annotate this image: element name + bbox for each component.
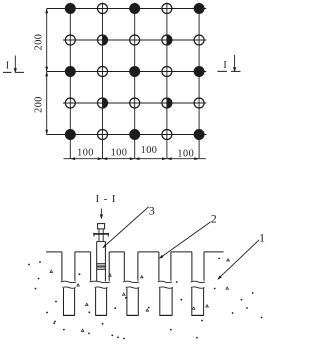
press machine neck left [98, 229, 100, 242]
open pile circle r4c5 [194, 98, 204, 108]
open pile circle r4c3 [130, 98, 140, 108]
wire - plan grid vertical col 3 [134, 3, 136, 159]
open pile circle r5c2 [98, 130, 108, 140]
pile head top edge [97, 241, 106, 243]
trench wall right unit1 [74, 252, 76, 281]
svg-text:1: 1 [259, 231, 265, 245]
leader line 2 [160, 222, 211, 258]
press direction arrowhead [100, 214, 103, 219]
break line lower pile top unit1 [63, 287, 76, 288]
open pile circle r3c2 [98, 67, 108, 77]
leader line 3 [103, 207, 149, 248]
trench wall left unit4 [158, 252, 160, 281]
trench wall left unit1 [61, 252, 63, 281]
ground surface segment 2 [75, 251, 91, 253]
buried pile wall right unit5 [203, 288, 205, 315]
wire - plan grid horizontal row 2 [63, 39, 206, 41]
break line lower pile top unit3 [126, 287, 139, 288]
trench wall left unit3 [123, 252, 125, 281]
dimension arrow left seg4 [167, 157, 172, 160]
half-filled pile circle r4c4 [162, 98, 172, 108]
section marker arrow line left [14, 56, 16, 70]
svg-text:100: 100 [141, 145, 158, 156]
section marker arrow line right [234, 55, 236, 68]
buried pile bottom unit1 [63, 314, 75, 316]
buried pile wall left unit5 [191, 288, 193, 315]
wire - plan grid horizontal row 1 [47, 8, 207, 10]
press machine crossbar tick left [93, 233, 95, 237]
section cut trace dash left [3, 71, 24, 73]
svg-text:I - I: I - I [96, 194, 117, 205]
dimension arrow left seg2 [103, 157, 108, 160]
break line lower pile top unit4 [159, 287, 173, 288]
open pile circle r2c5 [194, 35, 204, 45]
press direction arrow line [100, 209, 102, 216]
trench wall right unit3 [137, 252, 139, 281]
trench wall left unit2 [90, 252, 92, 281]
buried pile bottom unit5 [192, 314, 204, 316]
filled pile circle r3c1 [65, 66, 76, 77]
buried pile wall right unit3 [137, 288, 139, 315]
dimension arrow right seg1 [98, 157, 103, 160]
buried pile bottom unit3 [127, 314, 139, 316]
break line upper unit5 [191, 281, 206, 282]
svg-text:100: 100 [111, 148, 128, 159]
filled pile circle r5c5 [194, 129, 205, 140]
break line upper unit4 [158, 281, 172, 282]
section marker arrowhead right [233, 67, 236, 72]
ground surface segment 5 [171, 251, 192, 253]
half-filled pile circle r4c2 [98, 98, 108, 108]
dimension arrow down at row3 [45, 67, 48, 72]
wire - plan grid horizontal row 4 [63, 102, 206, 104]
press machine neck right [102, 229, 104, 242]
buried pile wall right unit4 [171, 288, 173, 315]
svg-text:I: I [6, 60, 9, 71]
press machine crossbar tick right [107, 233, 109, 237]
section cut trace dash right [218, 70, 242, 72]
open pile circle r2c1 [65, 35, 75, 45]
svg-text:100: 100 [77, 147, 94, 158]
svg-text:3: 3 [149, 204, 155, 218]
buried pile wall left unit4 [159, 288, 161, 315]
dimension arrow right seg4 [194, 157, 199, 160]
open pile circle r2c3 [130, 35, 140, 45]
break line upper unit2 [89, 281, 110, 282]
half-filled pile circle r2c4 [162, 35, 172, 45]
svg-text:200: 200 [33, 34, 44, 51]
ground surface segment 1 [46, 251, 62, 253]
buried pile wall right unit2 [106, 288, 108, 315]
filled pile circle r3c3 [129, 66, 140, 77]
ground surface segment 4 [138, 251, 159, 253]
buried pile bottom unit2 [95, 314, 107, 316]
dimension arrow left seg1 [70, 157, 75, 160]
leader arrowhead 2 [159, 255, 164, 259]
buried pile wall right unit1 [74, 288, 76, 315]
svg-text:2: 2 [211, 212, 217, 226]
leader arrowhead 3 [102, 244, 106, 248]
filled pile circle r5c1 [65, 129, 76, 140]
pile head wall left [96, 242, 98, 282]
wire - plan grid vertical col 5 [198, 3, 200, 159]
trench wall left unit5 [191, 252, 193, 281]
svg-text:200: 200 [33, 96, 44, 113]
break line upper unit3 [123, 281, 139, 282]
svg-text:I: I [223, 60, 226, 71]
open pile circle r3c4 [162, 67, 172, 77]
wire - plan grid horizontal row 5 [47, 134, 207, 136]
wire - plan grid vertical col 4 [166, 3, 168, 159]
ground surface segment 3 [109, 251, 124, 253]
dimension arrow left seg3 [135, 157, 140, 160]
dimension arrow up at row1 [45, 9, 48, 14]
open pile circle r1c4 [162, 4, 172, 14]
buried pile bottom unit4 [160, 314, 173, 316]
press machine crossbar [93, 233, 109, 235]
open pile circle r1c2 [98, 4, 108, 14]
leader line 1 [218, 240, 259, 279]
filled pile circle r1c1 [65, 3, 76, 14]
half-filled pile circle r2c2 [98, 35, 108, 45]
dimension arrow down at row5 [45, 130, 48, 135]
break line lower pile top unit5 [191, 287, 205, 288]
dimension line left vertical [46, 9, 48, 135]
trench wall right unit2 [108, 252, 110, 281]
break line lower pile top unit2 [95, 287, 108, 288]
section marker arrowhead left [14, 68, 17, 73]
press machine top box [98, 224, 105, 229]
dimension arrow right seg2 [130, 157, 135, 160]
wire - plan grid vertical col 1 [69, 3, 71, 159]
soil texture dots [28, 258, 262, 340]
filled pile circle r5c3 [129, 129, 140, 140]
wire - plan grid horizontal row 3 [47, 71, 207, 73]
svg-text:100: 100 [177, 149, 194, 160]
soil texture triangles [50, 259, 229, 332]
filled pile circle r1c3 [129, 3, 140, 14]
dimension arrow right seg3 [162, 157, 167, 160]
open pile circle r5c4 [162, 130, 172, 140]
trench wall right unit5 [203, 252, 205, 281]
buried pile wall left unit1 [63, 288, 65, 315]
dimension arrow up at row3 [45, 72, 48, 77]
dimension line bottom horizontal [64, 158, 206, 160]
wire - plan grid vertical col 2 [102, 3, 104, 159]
break line upper unit1 [61, 281, 76, 282]
filled pile circle r3c5 [194, 66, 205, 77]
buried pile wall left unit3 [126, 288, 128, 315]
leader arrowhead 1 [217, 275, 221, 279]
filled pile circle r1c5 [194, 3, 205, 14]
pile head wall right [104, 242, 106, 282]
ground surface segment 6 [204, 251, 224, 253]
pile head hatch band [97, 264, 106, 270]
open pile circle r4c1 [65, 98, 75, 108]
buried pile wall left unit2 [95, 288, 97, 315]
trench wall right unit4 [170, 252, 172, 281]
